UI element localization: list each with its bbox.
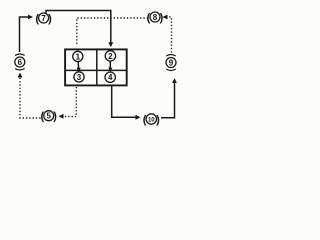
- arrowhead into 10: [136, 115, 141, 120]
- flowchart diagram: [0, 0, 192, 133]
- svg-text:(: (: [143, 114, 147, 126]
- arrowhead into 5: [59, 114, 64, 119]
- dotted wire 5 left up to 6: [20, 77, 41, 118]
- arrowhead into 8: [163, 15, 168, 20]
- node 6 with vertical parens: [15, 54, 25, 70]
- arrowhead 2 to 4: [108, 68, 112, 72]
- node 5: [40, 111, 57, 123]
- node 2 circle: [105, 51, 115, 61]
- dotted wire 8 left down to 1: [77, 18, 148, 45]
- box middle vertical: [96, 49, 98, 85]
- wire 4 down right to 10: [112, 85, 137, 117]
- svg-text:): ): [160, 12, 164, 24]
- svg-text:(: (: [35, 13, 39, 25]
- node 1 circle: [73, 51, 83, 61]
- wire 7 top right down to 2: [46, 11, 111, 44]
- arrowhead into 7: [28, 15, 33, 20]
- svg-text:8: 8: [153, 13, 158, 22]
- wire 6 up-right to 7: [20, 17, 30, 52]
- svg-text:(: (: [147, 12, 151, 24]
- svg-text:9: 9: [169, 59, 174, 68]
- svg-text:7: 7: [41, 14, 46, 23]
- node 8: [147, 12, 164, 24]
- digits in box nodes: [76, 52, 114, 82]
- arrowhead into 6: [18, 73, 23, 78]
- svg-text:1: 1: [76, 52, 81, 61]
- node 4 circle: [105, 72, 115, 82]
- arrowhead into 9: [172, 78, 177, 83]
- svg-text:2: 2: [108, 52, 113, 61]
- node 9 with vertical parens: [166, 55, 176, 71]
- svg-text:4: 4: [108, 73, 113, 82]
- node 10: [143, 114, 160, 126]
- node 3 circle: [74, 72, 84, 82]
- wire arrow 1 to 3: [77, 62, 79, 71]
- svg-text:5: 5: [46, 112, 51, 121]
- svg-text:6: 6: [18, 58, 23, 67]
- node 7: [35, 13, 52, 25]
- dotted wire 9 up left to 8: [166, 17, 172, 53]
- svg-text:(: (: [40, 111, 44, 123]
- box outer: [65, 49, 127, 85]
- svg-text:): ): [48, 13, 52, 25]
- dotted wire 3 down left to 5: [62, 87, 76, 117]
- svg-text:): ): [156, 114, 160, 126]
- arrowhead into 2: [108, 42, 113, 47]
- box middle horizontal: [65, 69, 127, 71]
- arrowhead 1 to 3: [77, 68, 81, 72]
- svg-text:): ): [53, 111, 57, 123]
- wire arrow 2 to 4: [109, 61, 111, 70]
- svg-text:10: 10: [148, 117, 155, 123]
- wire 10 right up to 9: [161, 82, 175, 118]
- svg-text:3: 3: [77, 73, 82, 82]
